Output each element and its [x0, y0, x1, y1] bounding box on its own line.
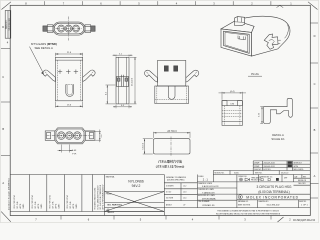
zone ticks top	[45, 1, 271, 5]
top view circle 1	[58, 25, 65, 32]
svg-text:C: C	[2, 75, 4, 79]
svg-text:±0.3: ±0.3	[183, 192, 186, 194]
svg-text:THIS DRAWING CONTAINS INFORMAT: THIS DRAWING CONTAINS INFORMATION THAT I…	[217, 209, 280, 212]
svg-text:CRW2A11.SD: CRW2A11.SD	[202, 204, 215, 207]
svg-text:3 CIRCUITS PLUG HSG: 3 CIRCUITS PLUG HSG	[256, 185, 292, 189]
svg-text:REV: REV	[303, 176, 306, 178]
svg-text:REV. PER EC NO: REV. PER EC NO	[14, 194, 16, 208]
svg-text:APPD:: APPD:	[37, 203, 40, 209]
svg-text:D: D	[2, 25, 4, 29]
svg-text:REVISE ON: REVISE ON	[298, 180, 306, 182]
svg-text:2003-09-2031: 2003-09-2031	[264, 166, 275, 168]
svg-text:±0.4: ±0.4	[183, 197, 186, 199]
plug top face	[221, 21, 254, 33]
svg-text:APPD:: APPD:	[55, 203, 58, 209]
svg-text:DR: CHK:: DR: CHK:	[35, 201, 37, 209]
plug socket tab	[238, 36, 245, 40]
svg-text:SEE NOTES: SEE NOTES	[238, 204, 251, 206]
svg-text:REV. PER EC NO: REV. PER EC NO	[67, 194, 69, 208]
zone letters right	[314, 34, 316, 178]
svg-text:NO. PART NO.: NO. PART NO.	[108, 204, 123, 207]
svg-text:PROJECTION: PROJECTION	[251, 180, 261, 182]
zone ticks right	[310, 23, 318, 198]
side2 body	[222, 101, 242, 126]
zone letters left	[2, 25, 4, 185]
detail A terminal ear profile	[263, 98, 292, 123]
plug ear link lines	[278, 39, 281, 41]
plug front face	[221, 29, 252, 56]
molex logo	[238, 195, 242, 199]
back view body	[158, 60, 186, 86]
front view left mounting ear	[43, 70, 55, 82]
svg-text:30 OVER: 30 OVER	[166, 197, 174, 199]
bottom plan octagon body	[55, 128, 85, 144]
tolerance texts	[166, 176, 187, 207]
svg-text:K.AOKI H11.04.28: K.AOKI H11.04.28	[202, 185, 219, 188]
svg-text:DR: CHK:: DR: CHK:	[17, 201, 19, 209]
top view centerline horizontal	[56, 28, 82, 30]
plug rear inner curve	[285, 25, 289, 39]
svg-text:DATE:: DATE:	[22, 203, 25, 208]
bottom plan circle 2	[66, 132, 74, 140]
third angle projection icon	[240, 178, 250, 181]
svg-text:REV. PER EC NO: REV. PER EC NO	[50, 194, 52, 208]
front view U slot	[66, 85, 74, 97]
top view left ear frame	[47, 25, 53, 33]
zone ticks left	[1, 49, 10, 156]
plug top tab	[235, 17, 245, 26]
plug rear cap	[236, 16, 290, 56]
back view latch window right	[174, 66, 178, 71]
svg-text:EOP NO.: EOP NO.	[264, 169, 272, 171]
svg-text:±3°: ±3°	[183, 205, 186, 207]
svg-text:M.FURUSAWA: M.FURUSAWA	[202, 197, 216, 200]
svg-text:SEE DETAIL A: SEE DETAIL A	[35, 46, 53, 50]
svg-text:5.5±0.2: 5.5±0.2	[143, 142, 145, 150]
svg-text:NYLON66: NYLON66	[128, 180, 144, 184]
svg-text:6 UNDER: 6 UNDER	[166, 186, 174, 188]
molex row	[237, 193, 310, 195]
finish cross	[105, 192, 165, 212]
svg-text:DATE:: DATE:	[75, 203, 78, 208]
back view U channel	[168, 86, 175, 99]
side2 top dim	[221, 92, 223, 100]
bottom plan pitch dim	[60, 145, 62, 153]
front view right mounting ear	[83, 70, 95, 82]
svg-text:DR: CHK:: DR: CHK:	[70, 201, 72, 209]
svg-text:D: D	[314, 34, 316, 38]
svg-text:CHG NO.: CHG NO.	[254, 169, 262, 171]
svg-text:94V-2: 94V-2	[132, 184, 141, 188]
svg-text:MATERIAL: MATERIAL	[106, 176, 115, 179]
zone numbers bottom	[35, 218, 291, 222]
svg-text:B: B	[2, 127, 4, 131]
panel cutout rect	[154, 139, 191, 154]
svg-text:WITH: WITH	[294, 166, 299, 168]
svg-text:GENERAL TOLERANCES: GENERAL TOLERANCES	[166, 176, 187, 179]
top view housing outer	[53, 22, 85, 35]
svg-text:ANGLE: ANGLE	[166, 204, 173, 207]
panel cutout left dim	[143, 138, 153, 140]
svg-text:EC NO: J2000-0978 PRODUCT: EC NO: J2000-0978 PRODUCT	[97, 185, 99, 209]
svg-text:APPD:: APPD:	[19, 203, 22, 209]
mtg ears leader	[30, 47, 45, 75]
plug latch ear	[264, 34, 278, 49]
dwg no box	[5, 11, 11, 39]
svg-text:03-09-20: 03-09-20	[281, 172, 288, 174]
bottom plan circle 1	[58, 132, 66, 140]
svg-text:DATE:: DATE:	[40, 203, 43, 208]
model no row	[213, 171, 310, 182]
front view bottom dim	[54, 102, 56, 108]
top view right ear pad	[91, 26, 95, 31]
svg-text:DIMENSIONS: mm: DIMENSIONS: mm	[260, 177, 274, 179]
svg-text:DR: CHK:: DR: CHK:	[53, 201, 55, 209]
settings band	[259, 175, 311, 186]
svg-text:TYP.: TYP.	[72, 153, 77, 155]
side1 right dim	[130, 56, 137, 58]
svg-text:CRWF: CRWF	[254, 163, 260, 165]
svg-text:±0.2: ±0.2	[183, 186, 186, 188]
svg-text:REV. PER EC NO: REV. PER EC NO	[32, 194, 34, 208]
back view left ear	[144, 70, 157, 82]
plug front face inner	[224, 31, 250, 53]
corner trim top-left	[2, 2, 12, 10]
top view right ear frame	[85, 25, 91, 33]
svg-text:B: B	[314, 128, 316, 132]
svg-text:INCORPORATED AND SHOULD NOT BE: INCORPORATED AND SHOULD NOT BE USED WITH…	[216, 212, 281, 215]
bottom plan right tab	[85, 131, 95, 140]
svg-text:(パネル厚 2.2まで(max)): (パネル厚 2.2まで(max))	[156, 165, 185, 169]
svg-text:DATE:: DATE:	[58, 203, 61, 208]
svg-text:WITHOUT: WITHOUT	[294, 163, 303, 165]
svg-text:1 OF 1: 1 OF 1	[301, 204, 308, 206]
bottom plan left tab	[45, 131, 55, 140]
corner trim top-right	[308, 2, 318, 10]
fold mark top	[277, 5, 284, 7]
svg-text:DR: K.AOKI CHK: T.TANIGUCHI: DR: K.AOKI CHK: T.TANIGUCHI	[99, 185, 102, 210]
front view top dim	[54, 53, 56, 57]
svg-text:APPD:: APPD:	[72, 203, 75, 209]
side1 top dim	[115, 55, 117, 57]
side1 body	[116, 57, 129, 104]
detail A dim	[260, 106, 263, 108]
svg-text:MFG CHRG: MFG CHRG	[294, 169, 304, 171]
svg-text:SD-1396-002: SD-1396-002	[9, 17, 11, 30]
revision cell texts	[14, 184, 105, 209]
top view circle 2	[65, 25, 72, 32]
bottom plan centerline	[47, 135, 94, 137]
svg-text:23.7±0.3: 23.7±0.3	[167, 130, 177, 133]
side1 bottom dim	[115, 105, 117, 109]
revision symbol circle	[107, 209, 109, 211]
zone numbers top	[25, 2, 292, 6]
back view right ear	[186, 70, 199, 82]
svg-text:SHEET NO.: SHEET NO.	[299, 201, 307, 203]
svg-text:RELEASED H11.05.07 DWG: RELEASED H11.05.07 DWG	[94, 187, 97, 209]
svg-text:CRWF: CRWF	[254, 166, 260, 168]
svg-text:MOLEX INCORPORATED: MOLEX INCORPORATED	[246, 196, 298, 200]
svg-text:SER NO.: SER NO.	[255, 172, 263, 174]
top view housing inner	[54, 23, 84, 34]
svg-text:パネル取付穴寸法: パネル取付穴寸法	[158, 159, 182, 164]
svg-text:SD-1396-002: SD-1396-002	[266, 204, 280, 206]
front view body	[55, 57, 82, 101]
side1 left dim	[106, 84, 116, 86]
crwf revision rows	[253, 161, 310, 171]
svg-text:2 : 1: 2 : 1	[203, 178, 209, 182]
corner trim bottom-right	[278, 217, 284, 222]
top view left ear pad	[43, 26, 47, 31]
svg-text:DRF: DRF	[284, 178, 287, 180]
back view latch window left	[164, 66, 168, 71]
back view skirt	[155, 86, 189, 104]
side1 latch detail	[117, 77, 129, 87]
svg-text:APPD: M.FURUSAWA H11.05.07: APPD: M.FURUSAWA H11.05.07	[102, 184, 105, 209]
svg-text:CN-SD(A)RT-WAJ-54: CN-SD(A)RT-WAJ-54	[293, 219, 316, 222]
svg-text:(6.00 DIA TERMINAL): (6.00 DIA TERMINAL)	[258, 190, 289, 194]
svg-text:FINISH: FINISH	[106, 193, 113, 195]
svg-text:A: A	[2, 181, 4, 185]
svg-text:DETAIL A: DETAIL A	[272, 133, 284, 137]
svg-text:PLUG: PLUG	[251, 72, 259, 76]
svg-text:DO NOT SCALE DRAWING: DO NOT SCALE DRAWING	[7, 178, 10, 210]
svg-text:(UNLESS SPECIFIED): (UNLESS SPECIFIED)	[167, 180, 185, 182]
svg-text:2003-09-2032: 2003-09-2032	[264, 163, 275, 165]
svg-text:T.TANIGUCHI: T.TANIGUCHI	[202, 191, 215, 194]
top view circle 3	[73, 25, 80, 32]
panel cutout top dim	[153, 132, 155, 138]
svg-text:ORDER NO.: ORDER NO.	[238, 176, 248, 178]
zone ticks bottom	[61, 216, 271, 220]
svg-text:C: C	[314, 82, 316, 86]
svg-text:DWG NO.: DWG NO.	[6, 19, 8, 29]
svg-text:MODEL NO.: MODEL NO.	[215, 172, 226, 174]
doc number row	[164, 200, 310, 208]
top view centerline vertical	[68, 17, 70, 41]
svg-text:SH 1/1: SH 1/1	[108, 212, 115, 214]
svg-text:6< 30>: 6< 30>	[166, 191, 171, 194]
svg-text:SCALE 4/1: SCALE 4/1	[271, 137, 285, 141]
front view plus marks	[58, 70, 78, 74]
svg-text:(4.4): (4.4)	[230, 91, 235, 93]
svg-text:13.4±0.3: 13.4±0.3	[132, 77, 134, 86]
corner trim bottom-left	[1, 212, 11, 222]
svg-text:A: A	[314, 174, 316, 178]
bottom plan right dim	[86, 131, 101, 133]
bottom plan circle 3	[74, 132, 82, 140]
